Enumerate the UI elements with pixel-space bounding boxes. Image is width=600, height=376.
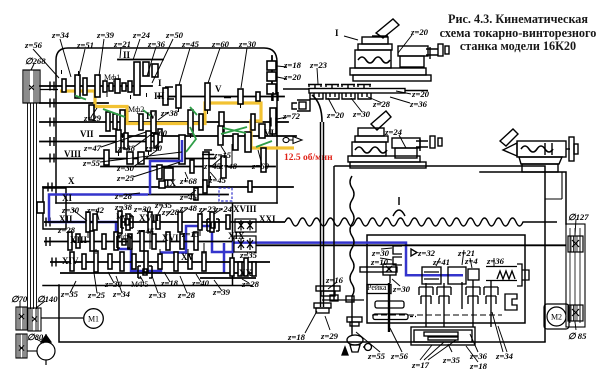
dashed gear z=15 disengaged — [202, 150, 214, 159]
svg-text:I: I — [158, 78, 162, 88]
guitar top gear 1 — [308, 85, 322, 89]
vertical drive pair down — [285, 122, 557, 333]
svg-text:z=45: z=45 — [203, 161, 222, 171]
svg-text:z=56: z=56 — [390, 351, 409, 361]
bottom and right labels — [11, 212, 589, 371]
svg-text:z=30: z=30 — [104, 279, 123, 289]
coupling z4 — [468, 269, 479, 280]
svg-text:z=23: z=23 — [198, 204, 217, 214]
gear z=55 VIII — [104, 150, 109, 165]
worm gear block z41 — [422, 267, 441, 284]
gear z10 bracket — [393, 257, 402, 265]
z labels headstock top — [24, 27, 430, 203]
leadscrew wavy line — [285, 218, 557, 226]
svg-text:Мф3: Мф3 — [116, 212, 132, 221]
svg-text:z=36: z=36 — [469, 351, 488, 361]
guitar top gear 4 — [357, 85, 371, 89]
svg-text:z=28: z=28 — [161, 207, 180, 217]
svg-text:z=60: z=60 — [149, 128, 168, 138]
svg-text:z=34: z=34 — [495, 351, 514, 361]
tumbler bracket — [292, 100, 310, 111]
feed box gears row XIII — [68, 232, 72, 250]
svg-text:z=36: z=36 — [147, 39, 166, 49]
motor M2 box — [544, 304, 569, 329]
svg-text:z=30: z=30 — [392, 284, 411, 294]
shaft XIV / XV — [50, 261, 270, 263]
gears shaft VII — [116, 130, 121, 152]
coupling XIX star box — [234, 236, 256, 252]
wire blue vertical from VI — [150, 140, 182, 195]
guitar top gear 2 — [325, 85, 339, 89]
output line XVIII to XXI — [232, 221, 285, 223]
svg-text:z=47: z=47 — [83, 143, 102, 153]
svg-text:z=33: z=33 — [148, 290, 167, 300]
svg-text:III: III — [154, 91, 165, 101]
svg-text:VII: VII — [80, 129, 94, 139]
svg-text:XX: XX — [239, 268, 252, 278]
small gear on wavy shaft — [347, 317, 362, 322]
svg-text:z=60: z=60 — [251, 161, 270, 171]
svg-text:z=56: z=56 — [24, 40, 43, 50]
coupling dashed — [219, 188, 232, 201]
svg-text:z=45: z=45 — [208, 175, 227, 185]
svg-text:z=25: z=25 — [116, 173, 135, 183]
svg-text:I: I — [335, 28, 339, 38]
svg-text:z=25: z=25 — [87, 290, 106, 300]
wire blue branch to XX — [223, 243, 226, 273]
gear II idler b — [143, 62, 149, 76]
svg-text:z=30: z=30 — [352, 109, 371, 119]
outer bottom frame — [59, 285, 545, 342]
svg-text:z=4: z=4 — [464, 256, 478, 266]
svg-text:X: X — [68, 176, 75, 186]
gears shaft V — [163, 88, 168, 105]
tumbler lever curve — [312, 95, 322, 122]
gears shaft VI — [158, 129, 162, 142]
gears shaft IX — [179, 135, 185, 164]
right bracket unit — [505, 294, 517, 310]
svg-text:Рейка: Рейка — [367, 283, 387, 292]
svg-text:XIII: XIII — [70, 235, 88, 245]
svg-text:XXI: XXI — [259, 214, 276, 224]
feed gearbox top edge — [43, 203, 277, 286]
svg-text:М1: М1 — [88, 315, 99, 324]
svg-text:z=24: z=24 — [214, 204, 233, 214]
pulley D85 — [568, 305, 583, 321]
svg-text:∅140: ∅140 — [37, 294, 58, 304]
svg-text:z=20: z=20 — [326, 110, 345, 120]
svg-text:z=29: z=29 — [83, 113, 102, 123]
svg-text:z=48: z=48 — [179, 203, 198, 213]
apron gear columns — [419, 287, 433, 304]
apron internals — [360, 246, 529, 327]
svg-text:XV: XV — [181, 252, 194, 262]
svg-text:VIII: VIII — [64, 149, 82, 159]
svg-text:z=18: z=18 — [287, 332, 306, 342]
bottom center bevel gears z16 — [314, 286, 475, 355]
svg-text:z=38: z=38 — [160, 108, 179, 118]
bed box outline — [335, 166, 545, 341]
svg-text:z=28: z=28 — [241, 279, 260, 289]
guitar cup gear 4 — [358, 93, 371, 99]
gear z=50 tall — [134, 62, 140, 95]
svg-text:XVIII: XVIII — [233, 204, 257, 214]
svg-text:XVII: XVII — [139, 213, 160, 223]
shaft IV — [40, 121, 288, 123]
gears shaft X — [203, 180, 207, 193]
gear left wall X box — [37, 202, 44, 213]
gear stems feed box — [88, 230, 204, 256]
pulley D70 stack — [16, 307, 37, 358]
svg-text:z=50: z=50 — [165, 30, 184, 40]
svg-text:z=30: z=30 — [144, 143, 163, 153]
svg-text:схема токарно-винторезного: схема токарно-винторезного — [440, 26, 597, 40]
apron box — [367, 235, 525, 323]
svg-text:z=60: z=60 — [211, 39, 230, 49]
svg-text:Мф4: Мф4 — [116, 232, 132, 241]
svg-text:z=23: z=23 — [309, 60, 328, 70]
vertical line x334 — [333, 166, 335, 300]
tailstock — [500, 129, 578, 172]
wire blue XI-XII weave — [49, 195, 463, 276]
small motor D80 — [37, 334, 55, 365]
feed rod line — [256, 244, 566, 246]
svg-text:z=45: z=45 — [136, 226, 155, 236]
svg-text:z=28: z=28 — [114, 191, 133, 201]
feed box gears row XIV — [70, 252, 74, 271]
shaft XVI lower — [60, 272, 252, 274]
svg-text:XVI: XVI — [162, 233, 179, 243]
reverse gears z18 z20 — [267, 61, 276, 70]
svg-text:z=42: z=42 — [86, 205, 105, 215]
guitar cup gear 1 — [310, 93, 323, 99]
pulley D140 — [28, 308, 41, 331]
svg-text:z=35: z=35 — [239, 250, 258, 260]
svg-text:XI: XI — [62, 193, 72, 203]
svg-text:z=24: z=24 — [384, 127, 403, 137]
svg-text:∅80: ∅80 — [27, 332, 44, 342]
svg-text:z=55: z=55 — [367, 351, 386, 361]
shaft III / V — [158, 96, 284, 98]
svg-text:z=29: z=29 — [320, 331, 339, 341]
svg-text:12.5 об/мин: 12.5 об/мин — [284, 152, 333, 163]
guitar cup gear 3 — [342, 93, 355, 99]
carriage 1 (top tool post) — [350, 19, 449, 81]
svg-text:Мф2: Мф2 — [128, 105, 144, 114]
shaft XIII — [44, 241, 232, 243]
governor — [347, 335, 363, 345]
svg-text:М2: М2 — [551, 313, 562, 322]
hanger symbol — [393, 197, 405, 216]
svg-text:z=18: z=18 — [160, 278, 179, 288]
svg-text:z=34: z=34 — [112, 289, 131, 299]
apron vertical stems — [426, 280, 491, 327]
coupling XVIII star box — [235, 219, 256, 232]
shaft VII — [40, 141, 158, 143]
motor M1 — [41, 309, 103, 329]
gears shaft IV left — [89, 105, 94, 120]
belt line pulley to box — [40, 89, 58, 91]
gear z=34 — [83, 78, 87, 95]
gear train (guitar) bar — [283, 85, 428, 123]
gear stems headstock — [62, 70, 241, 182]
shaft VIII — [40, 158, 215, 160]
svg-text:z=18: z=18 — [469, 361, 488, 371]
svg-text:∅127: ∅127 — [568, 212, 589, 222]
svg-text:z=20: z=20 — [283, 72, 302, 82]
green feed path segments — [75, 96, 272, 153]
gear z=51 — [95, 75, 100, 97]
right edge vertical shaft of reverse — [271, 56, 273, 100]
marker triangle z32 — [411, 249, 417, 256]
clutch Mf4 glyph — [117, 236, 130, 248]
svg-text:z=35: z=35 — [60, 289, 79, 299]
svg-text:МФ5: МФ5 — [131, 280, 148, 289]
axis dashed — [372, 314, 502, 316]
svg-text:∅ 85: ∅ 85 — [568, 331, 587, 341]
gear small left — [62, 79, 66, 92]
svg-text:Рис. 4.3. Кинематическая: Рис. 4.3. Кинематическая — [448, 12, 588, 26]
svg-text:z=38: z=38 — [114, 202, 133, 212]
svg-text:z=36: z=36 — [409, 99, 428, 109]
svg-text:z=68: z=68 — [179, 176, 198, 186]
svg-text:XIX: XIX — [228, 231, 245, 241]
svg-text:z=34: z=34 — [51, 30, 70, 40]
svg-text:z=35: z=35 — [442, 355, 461, 365]
svg-text:z=45: z=45 — [179, 192, 198, 202]
vertical stems pump — [388, 283, 390, 332]
svg-text:z=40: z=40 — [191, 278, 210, 288]
svg-text:z=28: z=28 — [372, 99, 391, 109]
svg-text:z=18: z=18 — [283, 60, 302, 70]
bevel pair z18 z29 — [314, 303, 331, 308]
gear z=60 lower — [261, 148, 266, 172]
shaft I — [40, 85, 152, 87]
svg-text:z=15: z=15 — [181, 229, 200, 239]
svg-text:z=48: z=48 — [219, 161, 238, 171]
shaft XI black part — [148, 194, 228, 196]
feed box gears row XII — [68, 211, 256, 278]
svg-text:z=45: z=45 — [181, 39, 200, 49]
rack pinion box — [383, 264, 396, 275]
svg-text:IV: IV — [146, 111, 157, 121]
svg-text:IX: IX — [166, 178, 177, 188]
cross slide unit right — [398, 46, 428, 56]
shaft XX — [200, 277, 256, 279]
gear block z21 — [448, 267, 466, 284]
svg-text:z=16: z=16 — [325, 275, 344, 285]
spindle arrow — [283, 137, 289, 142]
svg-text:z=72: z=72 — [282, 111, 301, 121]
svg-text:II: II — [123, 50, 131, 60]
svg-text:z=39: z=39 — [212, 287, 231, 297]
guitar cup gear 2 — [326, 93, 339, 99]
svg-text:z=28: z=28 — [57, 225, 76, 235]
gear z30 bracket — [393, 246, 402, 254]
shaft II stub — [118, 59, 163, 61]
gears shaft I group — [37, 61, 276, 213]
shaft VI — [100, 135, 296, 137]
belt to motor pulley — [28, 103, 37, 309]
vertical wavy shaft — [350, 176, 354, 333]
svg-text:z=28: z=28 — [177, 290, 196, 300]
pulley D127 — [568, 236, 583, 252]
gears shaft IV right — [188, 110, 193, 134]
feed box gears shaft XX — [230, 258, 234, 276]
shaft XII — [44, 221, 232, 223]
svg-text:∅70: ∅70 — [11, 294, 28, 304]
clutch glyph XVII right — [207, 219, 219, 231]
carriage 2 (lower tool post) — [348, 111, 442, 168]
blue feed route — [49, 140, 463, 275]
svg-text:z=36: z=36 — [486, 256, 505, 266]
svg-text:VI: VI — [264, 128, 274, 138]
clutch Mf5 glyph — [138, 266, 152, 278]
headstock box outline — [56, 48, 277, 203]
svg-text:Мф1: Мф1 — [104, 73, 120, 82]
svg-text:z=30: z=30 — [116, 163, 135, 173]
belt column right — [545, 172, 585, 327]
svg-text:z=15: z=15 — [213, 150, 232, 160]
svg-text:z=39: z=39 — [96, 30, 115, 40]
gear II idler c — [152, 64, 158, 77]
gear z=56 — [75, 75, 80, 98]
shaft X — [43, 186, 293, 188]
svg-text:XIV: XIV — [62, 256, 79, 266]
svg-text:z=55: z=55 — [82, 158, 101, 168]
svg-text:z=51: z=51 — [76, 40, 94, 50]
svg-text:XII: XII — [59, 214, 73, 224]
bed second top line to tailstock — [480, 172, 566, 224]
feed gearbox shafts — [44, 222, 566, 278]
svg-text:z=20: z=20 — [410, 27, 429, 37]
svg-text:z=38: z=38 — [117, 143, 136, 153]
svg-text:z=17: z=17 — [411, 360, 430, 370]
svg-text:∅268: ∅268 — [25, 56, 46, 66]
bearing ticks left wall — [46, 82, 278, 267]
svg-text:V: V — [215, 84, 222, 94]
svg-text:z=20: z=20 — [411, 89, 430, 99]
svg-text:z=41: z=41 — [432, 257, 450, 267]
worm spring z36 — [486, 267, 517, 281]
z labels feed box — [57, 200, 276, 300]
shaft upper-left y103 — [40, 102, 108, 104]
svg-text:z=30: z=30 — [238, 39, 257, 49]
T bar gears x334 — [322, 299, 364, 301]
yellow speed path — [60, 91, 294, 148]
rack bar — [360, 267, 397, 272]
clutch M1 gears — [103, 81, 107, 92]
oil pump box — [411, 327, 475, 345]
feed gearbox small left box — [43, 188, 66, 229]
svg-text:z=10: z=10 — [370, 257, 389, 267]
clutch Mf3 glyph — [121, 216, 133, 228]
svg-text:z=21: z=21 — [113, 39, 131, 49]
pulley D268 — [23, 70, 40, 103]
gear z=45 XI — [194, 188, 198, 200]
svg-text:станка модели 16К20: станка модели 16К20 — [460, 39, 576, 53]
guitar top gear 3 — [341, 85, 355, 89]
shaft IX — [101, 166, 275, 168]
